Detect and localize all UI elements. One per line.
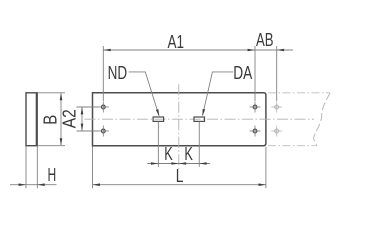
slot right (194, 117, 205, 121)
extension line AB right (276, 46, 278, 101)
arrow L right (259, 183, 266, 186)
extension line L left (92, 147, 94, 189)
arrow L left (93, 183, 100, 186)
arrow K outer-right (199, 162, 206, 165)
phantom top line (268, 92, 330, 94)
extension line L right (265, 147, 267, 189)
horizontal centerline (85, 118, 315, 120)
extension line A1 left (102, 46, 104, 101)
svg-text:K: K (184, 144, 193, 164)
dimension H line (10, 184, 57, 186)
arrow A2 top (81, 107, 84, 114)
phantom hole bottom (271, 126, 282, 137)
extension line top for B (38, 92, 66, 94)
slot left (153, 117, 164, 121)
svg-text:A1: A1 (168, 32, 185, 52)
svg-text:AB: AB (256, 30, 274, 50)
arrow A1 right (248, 49, 255, 52)
extension lines A2 (77, 106, 99, 108)
extension line A1 right (254, 46, 256, 101)
hole bottom-right (250, 126, 261, 137)
svg-text:K: K (164, 144, 173, 164)
svg-text:L: L (176, 166, 184, 186)
side view plate outline (26, 93, 37, 146)
dimension K line (147, 163, 210, 165)
arrow K inner-right (179, 162, 186, 165)
hole bottom-left (98, 126, 109, 137)
slot extension line right (198, 122, 200, 167)
dimension B line (60, 94, 62, 146)
dimension B arrow down (60, 138, 63, 145)
dimension A2 line (81, 107, 83, 131)
dimension B arrow up (60, 93, 63, 100)
svg-text:H: H (48, 165, 57, 185)
dimension H arrow left (37, 183, 44, 186)
arrow A1 left (103, 49, 110, 52)
dimension H arrow right (19, 183, 26, 186)
dimension A1/AB line (103, 49, 293, 51)
svg-text:ND: ND (108, 63, 128, 83)
main plate outline (93, 93, 266, 146)
vertical centerline (178, 84, 180, 172)
phantom bottom line (268, 145, 316, 147)
leader ND arrowhead (156, 109, 159, 116)
svg-text:DA: DA (233, 63, 252, 83)
break line (314, 93, 330, 146)
extension lines for H (25, 147, 27, 189)
hole top-right (250, 102, 261, 113)
leader DA arrowhead (202, 109, 205, 117)
arrow K outer-left (151, 162, 158, 165)
slot extension line left (157, 122, 159, 167)
dimension L line (93, 184, 266, 186)
arrow K inner-left (171, 162, 178, 165)
svg-text:A2: A2 (59, 109, 79, 128)
arrow A2 bottom (81, 124, 84, 131)
svg-text:B: B (41, 115, 61, 125)
phantom hole top (271, 102, 282, 113)
leader DA (203, 72, 234, 115)
hole top-left (98, 102, 109, 113)
leader ND (129, 72, 159, 116)
arrow AB (277, 49, 284, 52)
extension line bottom for B (38, 145, 66, 147)
